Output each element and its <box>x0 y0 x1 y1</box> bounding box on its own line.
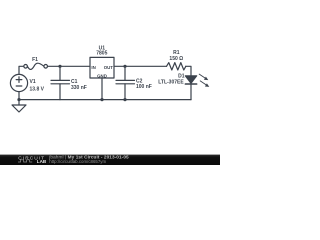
svg-text:13.8 V: 13.8 V <box>30 87 45 93</box>
wire V1 top to fuse <box>19 66 24 75</box>
resistor R1 <box>167 63 186 70</box>
fuse F1 <box>24 63 48 69</box>
footer text line 2 <box>49 159 106 164</box>
logo CircuitLab <box>18 156 47 164</box>
wire V1 bottom <box>18 92 20 100</box>
node junction C1 top <box>58 65 61 68</box>
wire fuse to U1 IN <box>48 65 91 67</box>
node junction C2 rail <box>123 98 126 101</box>
svg-text:http://circuitlab.com/c8657ym: http://circuitlab.com/c8657ym <box>49 159 106 164</box>
label U1 7805 <box>96 45 107 56</box>
LED arrow 2 <box>200 81 209 87</box>
ground <box>12 100 26 112</box>
svg-text:330 nF: 330 nF <box>71 85 87 91</box>
node junction C2 top <box>123 65 126 68</box>
label C1 value <box>71 79 87 91</box>
label C2 value <box>136 78 152 90</box>
wire R1 to D1 <box>186 66 191 75</box>
svg-text:LTL-307EE: LTL-307EE <box>158 79 184 85</box>
wire U1 GND lead <box>101 78 103 100</box>
wire C2 top lead <box>124 66 126 80</box>
LED D1 <box>185 76 196 84</box>
node junction V1 ground <box>17 98 20 101</box>
voltage source V1 <box>10 74 27 91</box>
svg-text:OUT: OUT <box>104 65 114 70</box>
label V1 value <box>30 79 45 93</box>
capacitor C1 <box>51 80 70 83</box>
svg-text:LAB: LAB <box>37 159 47 164</box>
footer text line 1 <box>48 155 129 160</box>
svg-text:IN: IN <box>91 65 95 70</box>
wire U1 OUT to R1 <box>114 65 167 67</box>
pin label GND <box>97 73 107 78</box>
wire C2 bottom lead <box>124 84 126 100</box>
svg-text:100 nF: 100 nF <box>136 84 152 90</box>
wire ground rail <box>19 99 191 101</box>
node junction U1 GND rail <box>100 98 103 101</box>
svg-text:150 Ω: 150 Ω <box>169 56 183 62</box>
capacitor C2 <box>116 80 135 83</box>
LED arrow 1 <box>199 74 208 80</box>
svg-text:F1: F1 <box>32 57 38 63</box>
label D1 part number <box>158 73 184 85</box>
wire C1 bottom lead <box>59 84 61 100</box>
wire C1 top lead <box>59 66 61 80</box>
wire D1 bottom lead <box>190 84 192 100</box>
pin label OUT <box>104 65 114 70</box>
regulator U1 <box>90 57 114 78</box>
svg-text:V1: V1 <box>30 79 36 85</box>
label R1 value <box>169 50 183 62</box>
footer bar <box>0 155 220 165</box>
svg-text:7805: 7805 <box>96 51 107 57</box>
pin label IN <box>91 65 95 70</box>
label F1 <box>32 57 38 63</box>
